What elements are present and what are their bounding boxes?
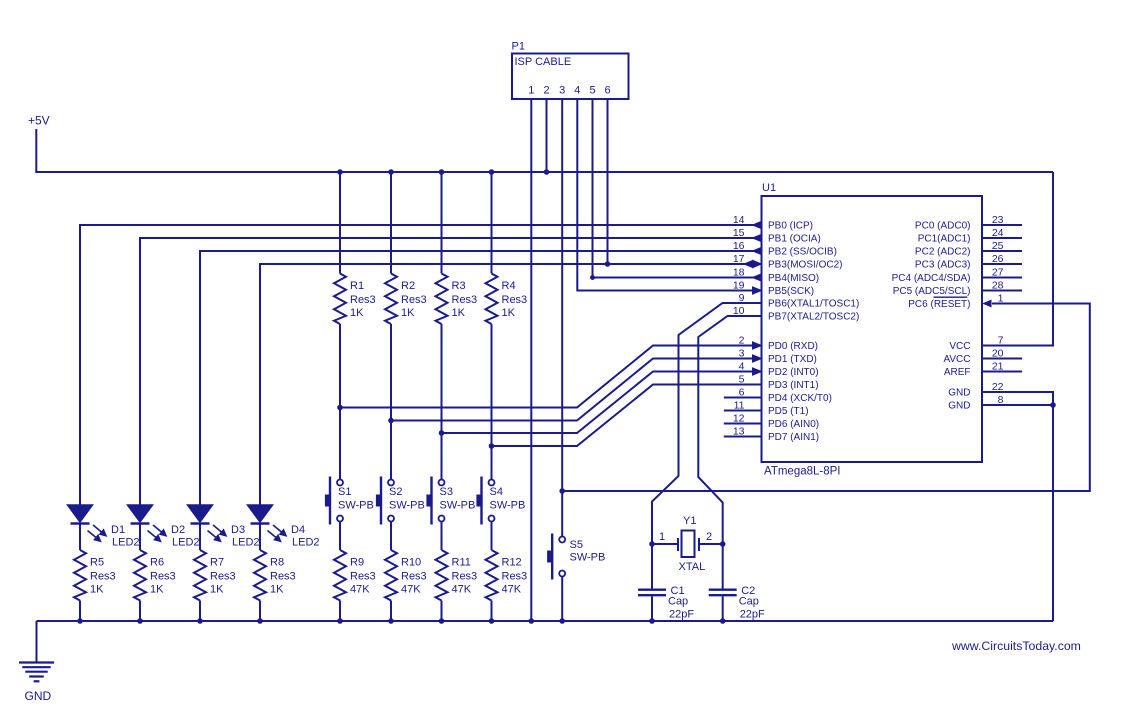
wire R5 to ground rail — [79, 601, 81, 622]
power label +5V — [28, 114, 50, 128]
wire PB1 to LED D2 column — [140, 238, 762, 505]
svg-text:R10: R10 — [401, 557, 421, 569]
wire ISP pin1 to ground rail — [530, 99, 532, 621]
svg-text:Res3: Res3 — [452, 571, 478, 583]
wire crystal pin2 to C2 — [722, 544, 724, 589]
IC U1 pin number 27 — [992, 267, 1004, 279]
wire LED D4 cathode to R8 — [259, 525, 261, 551]
wire R7 to ground rail — [199, 601, 201, 622]
svg-text:1K: 1K — [401, 307, 415, 319]
IC U1 pin number 9 — [739, 292, 745, 304]
resistor R11 labels — [452, 557, 478, 596]
svg-text:D2: D2 — [171, 524, 185, 536]
IC U1 pin label PC3 (ADC3) — [915, 260, 971, 271]
wire R11 to ground rail — [441, 601, 443, 622]
junction R9 ground rail — [338, 619, 343, 624]
arrowhead PD2 pin4 — [753, 368, 762, 375]
ground symbol bars — [19, 663, 54, 682]
junction ISP pin5 at PB4 corner — [591, 276, 595, 280]
wire ISP pin6 to PB3 — [607, 99, 609, 264]
svg-text:LED2: LED2 — [292, 537, 320, 549]
wire PB6 pin9 to crystal pin1 — [652, 303, 762, 544]
IC U1 pin label PB4(MISO) — [768, 273, 819, 284]
capacitor C1 labels — [668, 585, 694, 621]
arrowhead PB5 pin19 — [753, 287, 762, 294]
wire switch S4 to R12 — [491, 522, 493, 551]
svg-text:PC6 (RESET): PC6 (RESET) — [908, 299, 970, 310]
wire ISP pin3 vertical (RESET net) — [561, 99, 563, 537]
IC U1 pin label PD6 (AIN0) — [768, 419, 819, 430]
wire R10 to ground rail — [390, 601, 392, 622]
svg-text:AVCC: AVCC — [943, 354, 970, 365]
junction C1 ground rail — [650, 619, 655, 624]
IC U1 pin label PC4 (ADC4/SDA) — [892, 273, 971, 284]
svg-text:PD5 (T1): PD5 (T1) — [768, 406, 809, 417]
svg-text:Res3: Res3 — [401, 571, 427, 583]
site credit text — [951, 639, 1081, 653]
IC U1 pin number 1 — [998, 293, 1004, 305]
svg-text:47K: 47K — [350, 584, 370, 596]
IC U1 pin label PC2 (ADC2) — [915, 247, 971, 258]
wire switch S5 to ground rail — [561, 577, 563, 622]
wire +5V vertical — [35, 129, 37, 172]
svg-text:R7: R7 — [210, 557, 224, 569]
svg-text:S5: S5 — [570, 539, 583, 551]
IC U1 pin label PB3(MOSI/OC2) — [768, 260, 842, 271]
svg-text:R4: R4 — [502, 280, 516, 292]
svg-text:6: 6 — [604, 85, 610, 97]
IC U1 pin number 2 — [739, 335, 745, 347]
resistor R8 labels — [270, 557, 296, 596]
switch S2 — [376, 477, 394, 525]
IC U1 pin number 14 — [733, 214, 745, 226]
svg-text:Res3: Res3 — [502, 571, 528, 583]
svg-text:1K: 1K — [150, 584, 164, 596]
wire PD7 stub — [724, 436, 762, 438]
svg-text:S2: S2 — [389, 486, 402, 498]
crystal Y1 refdes label — [683, 515, 696, 527]
svg-text:19: 19 — [733, 280, 745, 292]
IC U1 pin number 19 — [733, 280, 745, 292]
IC U1 pin number 11 — [734, 400, 745, 412]
IC U1 part name ATmega8L-8PI — [764, 466, 841, 478]
svg-text:ATmega8L-8PI: ATmega8L-8PI — [764, 466, 841, 478]
junction R8 ground rail — [258, 619, 263, 624]
svg-text:SW-PB: SW-PB — [338, 500, 374, 512]
wire +5V rail horizontal — [35, 171, 1053, 173]
svg-text:GND: GND — [948, 388, 970, 399]
svg-text:5: 5 — [589, 85, 595, 97]
svg-text:R12: R12 — [502, 557, 522, 569]
svg-text:D1: D1 — [111, 524, 125, 536]
wire R8 to ground rail — [259, 601, 261, 622]
svg-text:Cap: Cap — [739, 596, 759, 608]
junction PD0 at switch column — [338, 405, 343, 410]
wire PC0 stub — [982, 224, 1022, 226]
svg-text:22pF: 22pF — [669, 609, 694, 621]
svg-text:U1: U1 — [762, 182, 776, 194]
switch S2 labels — [389, 486, 425, 512]
svg-text:PB7(XTAL2/TOSC2): PB7(XTAL2/TOSC2) — [768, 312, 859, 323]
IC U1 pin number 10 — [733, 305, 745, 317]
svg-text:VCC: VCC — [949, 341, 970, 352]
wire ground stem — [36, 621, 38, 663]
svg-text:1: 1 — [528, 85, 534, 97]
connector P1 pin number 2 — [543, 85, 549, 97]
switch S3 — [427, 477, 445, 525]
wire R4 to switch S4 — [491, 324, 493, 480]
crystal Y1 left plate — [677, 538, 679, 551]
junction ISP pin3 at reset line — [560, 489, 565, 494]
connector P1 pin number 6 — [604, 85, 610, 97]
switch S5 labels — [570, 539, 606, 564]
svg-text:PD2 (INT0): PD2 (INT0) — [768, 367, 819, 378]
IC U1 pin label PB1 (OCIA) — [768, 234, 821, 245]
svg-text:R11: R11 — [452, 557, 471, 569]
junction R10 ground rail — [389, 619, 394, 624]
junction crystal pin1 node — [650, 542, 655, 547]
svg-text:LED2: LED2 — [232, 537, 260, 549]
wire PC4 stub — [982, 277, 1022, 279]
junction S5 ground rail — [560, 619, 565, 624]
junction ISP pin1 ground rail — [529, 619, 534, 624]
arrowhead PB1 pin15 — [753, 234, 762, 241]
svg-text:47K: 47K — [452, 584, 472, 596]
svg-text:Res3: Res3 — [401, 294, 427, 306]
svg-text:Y1: Y1 — [683, 515, 696, 527]
svg-text:PC4 (ADC4/SDA): PC4 (ADC4/SDA) — [892, 273, 971, 284]
wire GND pin22 to ground rail — [982, 392, 1053, 621]
wire PC3 stub — [982, 263, 1022, 265]
capacitor C1 plates — [638, 590, 666, 596]
svg-text:GND: GND — [25, 689, 52, 703]
svg-text:1K: 1K — [502, 307, 516, 319]
svg-text:R5: R5 — [90, 557, 104, 569]
connector P1 pin number 1 — [528, 85, 534, 97]
resistor R7 labels — [210, 557, 236, 596]
resistor R5 — [74, 550, 86, 601]
svg-text:PB4(MISO): PB4(MISO) — [768, 273, 819, 284]
arrowhead PB3 pin17 double — [744, 260, 762, 267]
IC U1 refdes label — [762, 182, 776, 194]
connector P1 pin number 3 — [559, 85, 565, 97]
LED D1 labels — [111, 524, 140, 549]
junction R6 ground rail — [138, 619, 143, 624]
IC U1 pin label PB2 (SS/OCIB) — [768, 247, 837, 258]
svg-text:R3: R3 — [452, 280, 466, 292]
IC U1 pin number 24 — [992, 227, 1004, 239]
wire R6 to ground rail — [139, 601, 141, 622]
wire crystal pin1 — [652, 543, 677, 545]
svg-text:S3: S3 — [440, 486, 453, 498]
wire LED D2 cathode to R6 — [139, 525, 141, 551]
resistor R3 labels — [452, 280, 478, 319]
junction crystal pin2 node — [720, 542, 725, 547]
IC U1 pin number 20 — [992, 348, 1004, 360]
svg-text:SW-PB: SW-PB — [440, 500, 476, 512]
wire +5V rail to R1 — [339, 172, 341, 274]
IC U1 pin number 8 — [998, 394, 1004, 406]
wire PD6 stub — [724, 423, 762, 425]
wire PB0 to LED D1 column — [80, 225, 762, 505]
wire ground rail horizontal — [37, 620, 1054, 622]
svg-text:PB5(SCK): PB5(SCK) — [768, 286, 814, 297]
junction R5 ground rail — [78, 619, 83, 624]
switch S5 — [548, 534, 566, 580]
junction R4 +5V rail — [489, 170, 494, 175]
svg-text:PD3 (INT1): PD3 (INT1) — [768, 380, 819, 391]
IC U1 pin number 28 — [992, 280, 1004, 292]
svg-text:PD7 (AIN1): PD7 (AIN1) — [768, 432, 819, 443]
IC U1 pin label PB7(XTAL2/TOSC2) — [768, 312, 859, 323]
wire PB3 to LED D4 column — [260, 264, 762, 505]
IC U1 pin number 18 — [733, 267, 745, 279]
resistor R7 — [194, 550, 206, 601]
IC U1 pin label GND 8 — [948, 401, 970, 412]
svg-text:1K: 1K — [270, 584, 284, 596]
resistor R10 — [385, 550, 397, 601]
arrowhead PC6 pin1 — [984, 300, 992, 306]
resistor R6 — [134, 550, 146, 601]
connector P1 box — [512, 54, 629, 100]
wire switch S3 to R11 — [441, 522, 443, 551]
svg-text:PB3(MOSI/OC2): PB3(MOSI/OC2) — [768, 260, 842, 271]
wire AVCC stub — [982, 358, 1022, 360]
svg-text:R8: R8 — [270, 557, 284, 569]
svg-text:Res3: Res3 — [270, 571, 296, 583]
svg-text:www.CircuitsToday.com: www.CircuitsToday.com — [951, 639, 1081, 653]
IC U1 pin number 4 — [739, 361, 745, 373]
LED D2 labels — [171, 524, 200, 549]
wire +5V rail to R4 — [491, 172, 493, 274]
resistor R12 — [486, 550, 498, 601]
wire +5V rail to R3 — [441, 172, 443, 274]
crystal Y1 name XTAL — [679, 561, 706, 573]
switch S4 — [477, 477, 495, 525]
ground label GND — [25, 689, 52, 703]
wire R12 to ground rail — [491, 601, 493, 622]
IC U1 pin number 26 — [992, 253, 1004, 265]
svg-text:22pF: 22pF — [740, 609, 765, 621]
wire ISP pin2 to +5V rail — [546, 99, 548, 172]
LED D1 — [68, 505, 107, 542]
svg-text:SW-PB: SW-PB — [490, 500, 526, 512]
LED D2 — [128, 505, 167, 542]
switch S4 labels — [490, 486, 526, 512]
wire R9 to ground rail — [339, 601, 341, 622]
wire LED D3 cathode to R7 — [199, 525, 201, 551]
arrowhead PD1 pin3 — [753, 355, 762, 362]
wire PC6 RESET to reset line — [562, 304, 1090, 492]
wire +5V rail to R2 — [390, 172, 392, 274]
capacitor C2 plates — [709, 590, 737, 596]
svg-text:3: 3 — [559, 85, 565, 97]
svg-text:Res3: Res3 — [350, 571, 376, 583]
svg-text:AREF: AREF — [944, 367, 971, 378]
IC U1 pin label PD1 (TXD) — [768, 354, 817, 365]
IC U1 pin label PD5 (T1) — [768, 406, 809, 417]
crystal Y1 right plate — [698, 538, 700, 551]
resistor R8 — [254, 550, 266, 601]
wire R2 to switch S2 — [390, 324, 392, 480]
IC U1 pin label PC5 (ADC5/SCL) — [893, 286, 971, 297]
wire C1 to ground rail — [651, 596, 653, 621]
wire PB7 pin10 to crystal pin2 — [698, 316, 761, 544]
svg-text:Cap: Cap — [668, 596, 688, 608]
wire C2 to ground rail — [722, 596, 724, 621]
resistor R12 labels — [502, 557, 528, 596]
wire crystal pin2 — [700, 543, 723, 545]
crystal pin number 2 — [706, 531, 712, 543]
svg-text:PD4 (XCK/T0): PD4 (XCK/T0) — [768, 393, 832, 404]
IC U1 pin number 23 — [992, 214, 1004, 226]
svg-text:PD1 (TXD): PD1 (TXD) — [768, 354, 817, 365]
junction PD1 at switch column — [389, 418, 394, 423]
wire AREF stub — [982, 371, 1022, 373]
IC U1 pin label GND 22 — [948, 388, 970, 399]
IC U1 pin label PB6(XTAL1/TOSC1) — [768, 299, 859, 310]
svg-text:47K: 47K — [502, 584, 522, 596]
wire PC5 stub — [982, 290, 1022, 292]
capacitor C2 labels — [739, 585, 765, 621]
IC U1 pin label PC0 (ADC0) — [915, 221, 971, 232]
svg-text:R2: R2 — [401, 280, 415, 292]
wire ISP pin4 to PB5 — [577, 99, 761, 291]
wire PD0 to switch S1 node — [340, 346, 762, 408]
svg-text:1K: 1K — [90, 584, 104, 596]
svg-text:1K: 1K — [452, 307, 466, 319]
junction PD3 at switch column — [489, 444, 494, 449]
resistor R9 labels — [350, 557, 376, 596]
svg-text:S4: S4 — [490, 486, 503, 498]
connector P1 pin number 4 — [574, 85, 580, 97]
svg-text:Res3: Res3 — [452, 294, 478, 306]
svg-text:4: 4 — [574, 85, 580, 97]
svg-text:R9: R9 — [350, 557, 364, 569]
svg-text:PB2 (SS/OCIB): PB2 (SS/OCIB) — [768, 247, 837, 258]
svg-text:GND: GND — [948, 401, 970, 412]
svg-text:1K: 1K — [350, 307, 364, 319]
svg-text:PB1 (OCIA): PB1 (OCIA) — [768, 234, 821, 245]
svg-text:XTAL: XTAL — [679, 561, 706, 573]
svg-text:+5V: +5V — [28, 114, 50, 128]
wire switch S2 to R10 — [390, 522, 392, 551]
junction R12 ground rail — [489, 619, 494, 624]
resistor R2 labels — [401, 280, 427, 319]
IC U1 pin number 12 — [733, 413, 745, 425]
resistor R5 labels — [90, 557, 116, 596]
svg-text:S1: S1 — [338, 486, 351, 498]
svg-text:PD6 (AIN0): PD6 (AIN0) — [768, 419, 819, 430]
resistor R6 labels — [150, 557, 176, 596]
junction ISP pin6 on PB3 wire — [605, 262, 610, 267]
IC U1 pin label PB5(SCK) — [768, 286, 814, 297]
svg-text:PC3 (ADC3): PC3 (ADC3) — [915, 260, 971, 271]
IC U1 pin number 25 — [992, 240, 1004, 252]
wire PC2 stub — [982, 250, 1022, 252]
LED D3 labels — [231, 524, 260, 549]
switch S3 labels — [440, 486, 476, 512]
wire crystal pin1 to C1 — [651, 544, 653, 589]
resistor R3 — [436, 274, 448, 325]
svg-text:Res3: Res3 — [150, 571, 176, 583]
svg-text:PC0 (ADC0): PC0 (ADC0) — [915, 221, 971, 232]
LED D4 — [248, 505, 287, 542]
IC U1 pin label VCC — [949, 341, 970, 352]
svg-text:PB0 (ICP): PB0 (ICP) — [768, 221, 813, 232]
svg-text:PC2 (ADC2): PC2 (ADC2) — [915, 247, 971, 258]
IC U1 pin number 21 — [992, 361, 1004, 373]
IC U1 pin label PD7 (AIN1) — [768, 432, 819, 443]
junction GND pin8 — [1051, 403, 1056, 408]
svg-text:R6: R6 — [150, 557, 164, 569]
wire ISP pin5 to PB4 — [593, 99, 762, 278]
svg-text:PB6(XTAL1/TOSC1): PB6(XTAL1/TOSC1) — [768, 299, 859, 310]
IC U1 pin number 7 — [998, 335, 1004, 347]
IC U1 pin label PD3 (INT1) — [768, 380, 819, 391]
svg-text:ISP CABLE: ISP CABLE — [515, 56, 572, 68]
junction ISP pin2 on +5V rail — [544, 170, 549, 175]
IC U1 pin number 15 — [733, 227, 745, 239]
LED D3 — [188, 505, 227, 542]
IC U1 pin label AVCC — [943, 354, 970, 365]
wire PD1 to switch S2 node — [391, 359, 762, 421]
resistor R4 — [486, 274, 498, 325]
wire PB2 to LED D3 column — [200, 251, 762, 505]
wire R3 to switch S3 — [441, 324, 443, 480]
svg-text:PD0 (RXD): PD0 (RXD) — [768, 341, 818, 352]
svg-text:2: 2 — [706, 531, 712, 543]
wire PD3 to switch S4 node — [492, 385, 762, 447]
resistor R10 labels — [401, 557, 427, 596]
svg-text:PC5 (ADC5/SCL): PC5 (ADC5/SCL) — [893, 286, 971, 297]
wire R1 to switch S1 — [339, 324, 341, 480]
junction R1 +5V rail — [338, 170, 343, 175]
resistor R1 — [334, 274, 346, 325]
IC U1 pin label PD2 (INT0) — [768, 367, 819, 378]
svg-text:SW-PB: SW-PB — [389, 500, 425, 512]
IC U1 pin number 16 — [733, 240, 745, 252]
resistor R11 — [436, 550, 448, 601]
wire GND pin8 — [982, 404, 1053, 406]
svg-text:Res3: Res3 — [90, 571, 116, 583]
connector P1 name ISP CABLE — [515, 56, 572, 68]
junction R3 +5V rail — [439, 170, 444, 175]
resistor R1 labels — [350, 280, 376, 319]
IC U1 pin number 13 — [733, 426, 745, 438]
svg-text:SW-PB: SW-PB — [570, 552, 606, 564]
arrowhead PB2 pin16 — [753, 247, 762, 254]
LED D4 labels — [291, 524, 320, 549]
IC U1 pin number 17 — [733, 253, 745, 265]
svg-text:Res3: Res3 — [350, 294, 376, 306]
svg-text:1: 1 — [659, 531, 665, 543]
resistor R9 — [334, 550, 346, 601]
IC U1 pin label PC1(ADC1) — [918, 234, 971, 245]
svg-text:PC1(ADC1): PC1(ADC1) — [918, 234, 971, 245]
switch S1 — [325, 477, 343, 525]
IC U1 pin number 5 — [739, 374, 745, 386]
wire PD2 to switch S3 node — [442, 372, 762, 434]
connector P1 pin number 5 — [589, 85, 595, 97]
wire PD5 stub — [724, 410, 762, 412]
arrowhead PB4 pin18 — [753, 274, 762, 281]
crystal Y1 body — [682, 531, 695, 558]
IC U1 pin label PD4 (XCK/T0) — [768, 393, 832, 404]
junction PD2 at switch column — [439, 431, 444, 436]
IC U1 pin number 3 — [739, 348, 745, 360]
IC U1 pin label PD0 (RXD) — [768, 341, 818, 352]
